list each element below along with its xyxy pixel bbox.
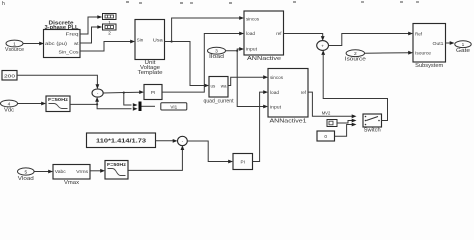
svg-text:ANNactive1: ANNactive1 (270, 118, 307, 124)
svg-text:ANNactive: ANNactive (247, 56, 281, 62)
svg-text:wa: wa (221, 83, 227, 88)
wire constant 0 to Switch in3 (335, 123, 357, 137)
svg-text:Switch: Switch (364, 128, 381, 134)
goto tag 2 (103, 24, 117, 35)
PLL title (45, 20, 79, 31)
svg-text:Ref: Ref (415, 31, 423, 36)
block Unit Voltage Template (135, 20, 165, 76)
svg-text:Usa: Usa (153, 37, 164, 42)
wire filter1 to sum1 bottom (70, 97, 99, 106)
wire Usa branch to quad_current us (172, 42, 209, 88)
svg-text:PI: PI (241, 160, 245, 165)
wire Vsource to PLL (23, 42, 44, 46)
sum3 (317, 41, 329, 51)
block Discrete 3-phase PLL (44, 30, 81, 58)
from tag MV2 (327, 120, 337, 127)
svg-text:Vmax: Vmax (64, 180, 80, 184)
wire sum2 to PI2 (187, 141, 233, 163)
constant 110*1.414/1.73 (87, 133, 156, 148)
svg-text:+: + (321, 44, 324, 49)
svg-text:110*1.414/1.73: 110*1.414/1.73 (96, 138, 146, 144)
svg-text:Sin: Sin (137, 37, 144, 42)
svg-text:Vrms: Vrms (76, 169, 89, 174)
svg-text:Isource: Isource (415, 51, 432, 56)
inport Vload (18, 168, 35, 182)
svg-text:ref: ref (276, 31, 282, 36)
wire Iload to ANNactive input (226, 47, 245, 52)
wire Vdc to filter1 (18, 102, 47, 106)
svg-text:us: us (211, 83, 217, 88)
wire PLL wt to tag2 (80, 25, 102, 43)
block ANNactive (244, 11, 284, 62)
wire filter2 to sum2 bottom (128, 145, 184, 170)
wire constant to sum2 (156, 139, 178, 143)
wire sum1 to PI1 (103, 90, 144, 94)
wire PI1 to ANNactive load (162, 32, 244, 93)
wire Switch out to sum3 bottom (321, 50, 387, 120)
wire ANNactive ref to sum3 top (284, 34, 325, 41)
svg-text:input: input (270, 104, 282, 109)
sum2 (178, 136, 188, 145)
svg-text:200: 200 (4, 74, 15, 80)
block Subsystem (413, 24, 446, 70)
wire sum3 to Subsystem Ref (329, 32, 414, 46)
wire Usa to ANNactive sincos (165, 16, 245, 43)
svg-text:Gate: Gate (456, 48, 470, 54)
svg-text:F=50Hz: F=50Hz (107, 162, 127, 167)
svg-text:Freq: Freq (66, 31, 80, 36)
inport Iload (208, 47, 226, 60)
inport Isource (345, 50, 366, 63)
svg-text:F=50Hz: F=50Hz (48, 97, 69, 102)
wire Vload to Vmax (34, 170, 53, 174)
svg-text:load: load (270, 90, 280, 95)
wire quad_current wa to ANNactive1 sincos (228, 75, 268, 85)
svg-text:Vabc: Vabc (55, 169, 67, 174)
svg-text:wt: wt (74, 41, 79, 46)
scan specks top (126, 1, 129, 3)
svg-text:sincos: sincos (270, 75, 284, 80)
block ANNactive1 (268, 69, 308, 125)
svg-text:Sin_Cos: Sin_Cos (59, 49, 80, 54)
goto tag VI1 (161, 103, 187, 110)
inport Vdc (1, 100, 18, 113)
wire Isource to Subsystem (365, 51, 414, 55)
svg-text:sincos: sincos (246, 16, 260, 21)
svg-text:ref: ref (301, 90, 307, 95)
block Switch (363, 114, 382, 134)
svg-text:abc (pu): abc (pu) (45, 41, 68, 46)
block quad_current (204, 77, 235, 105)
sum1 (92, 89, 103, 97)
svg-text:Subsystem: Subsystem (415, 63, 443, 69)
svg-text:quad_current: quad_current (204, 99, 235, 105)
block filter2 F=50Hz (105, 161, 128, 180)
svg-text:PI: PI (151, 90, 155, 95)
svg-text:Isource: Isource (345, 57, 366, 63)
svg-text:Iload: Iload (209, 54, 224, 60)
svg-text:Out1: Out1 (433, 41, 445, 46)
svg-text:h: h (2, 1, 5, 7)
outport Gate (455, 41, 471, 54)
svg-text:VI1: VI1 (170, 105, 177, 110)
wire Iload branch to ANNactive1 input (237, 51, 268, 109)
block Vmax (53, 165, 90, 186)
wire 200 to sum1 top (17, 75, 99, 89)
constant 200 (2, 71, 17, 81)
svg-text:input: input (246, 47, 258, 52)
svg-text:load: load (246, 31, 256, 36)
constant 0 (317, 131, 335, 141)
wire MV2 to Switch in2 (337, 119, 357, 123)
wire PI2 to ANNactive1 load (253, 90, 269, 161)
svg-text:Template: Template (138, 70, 163, 76)
wire Out1 to Gate (446, 41, 455, 45)
block PI1 (144, 85, 162, 100)
block filter1 F=50Hz (46, 96, 70, 112)
wire filter1 branch to mux in2 (97, 104, 138, 110)
mux Mux1 (139, 102, 156, 112)
wire Vmax to filter2 (90, 169, 105, 173)
svg-text:Vdc: Vdc (4, 107, 15, 113)
svg-text:5: 5 (24, 169, 27, 175)
wire sum1 error branch to mux in1 (124, 93, 138, 107)
svg-text:0: 0 (324, 134, 327, 140)
wire PLL Freq to tag1 (80, 15, 102, 34)
goto tag 1 (103, 14, 117, 25)
wire ANNactive1 ref to Switch in1 (308, 92, 357, 118)
wire PLL Sin_Cos to Unit Voltage Template (80, 40, 135, 51)
svg-text:Vsource: Vsource (5, 47, 24, 53)
svg-text:2: 2 (108, 30, 111, 35)
inport Vsource (5, 40, 24, 53)
block PI2 (233, 154, 253, 170)
svg-text:Vload: Vload (18, 176, 34, 182)
svg-text:MV2: MV2 (322, 110, 331, 115)
